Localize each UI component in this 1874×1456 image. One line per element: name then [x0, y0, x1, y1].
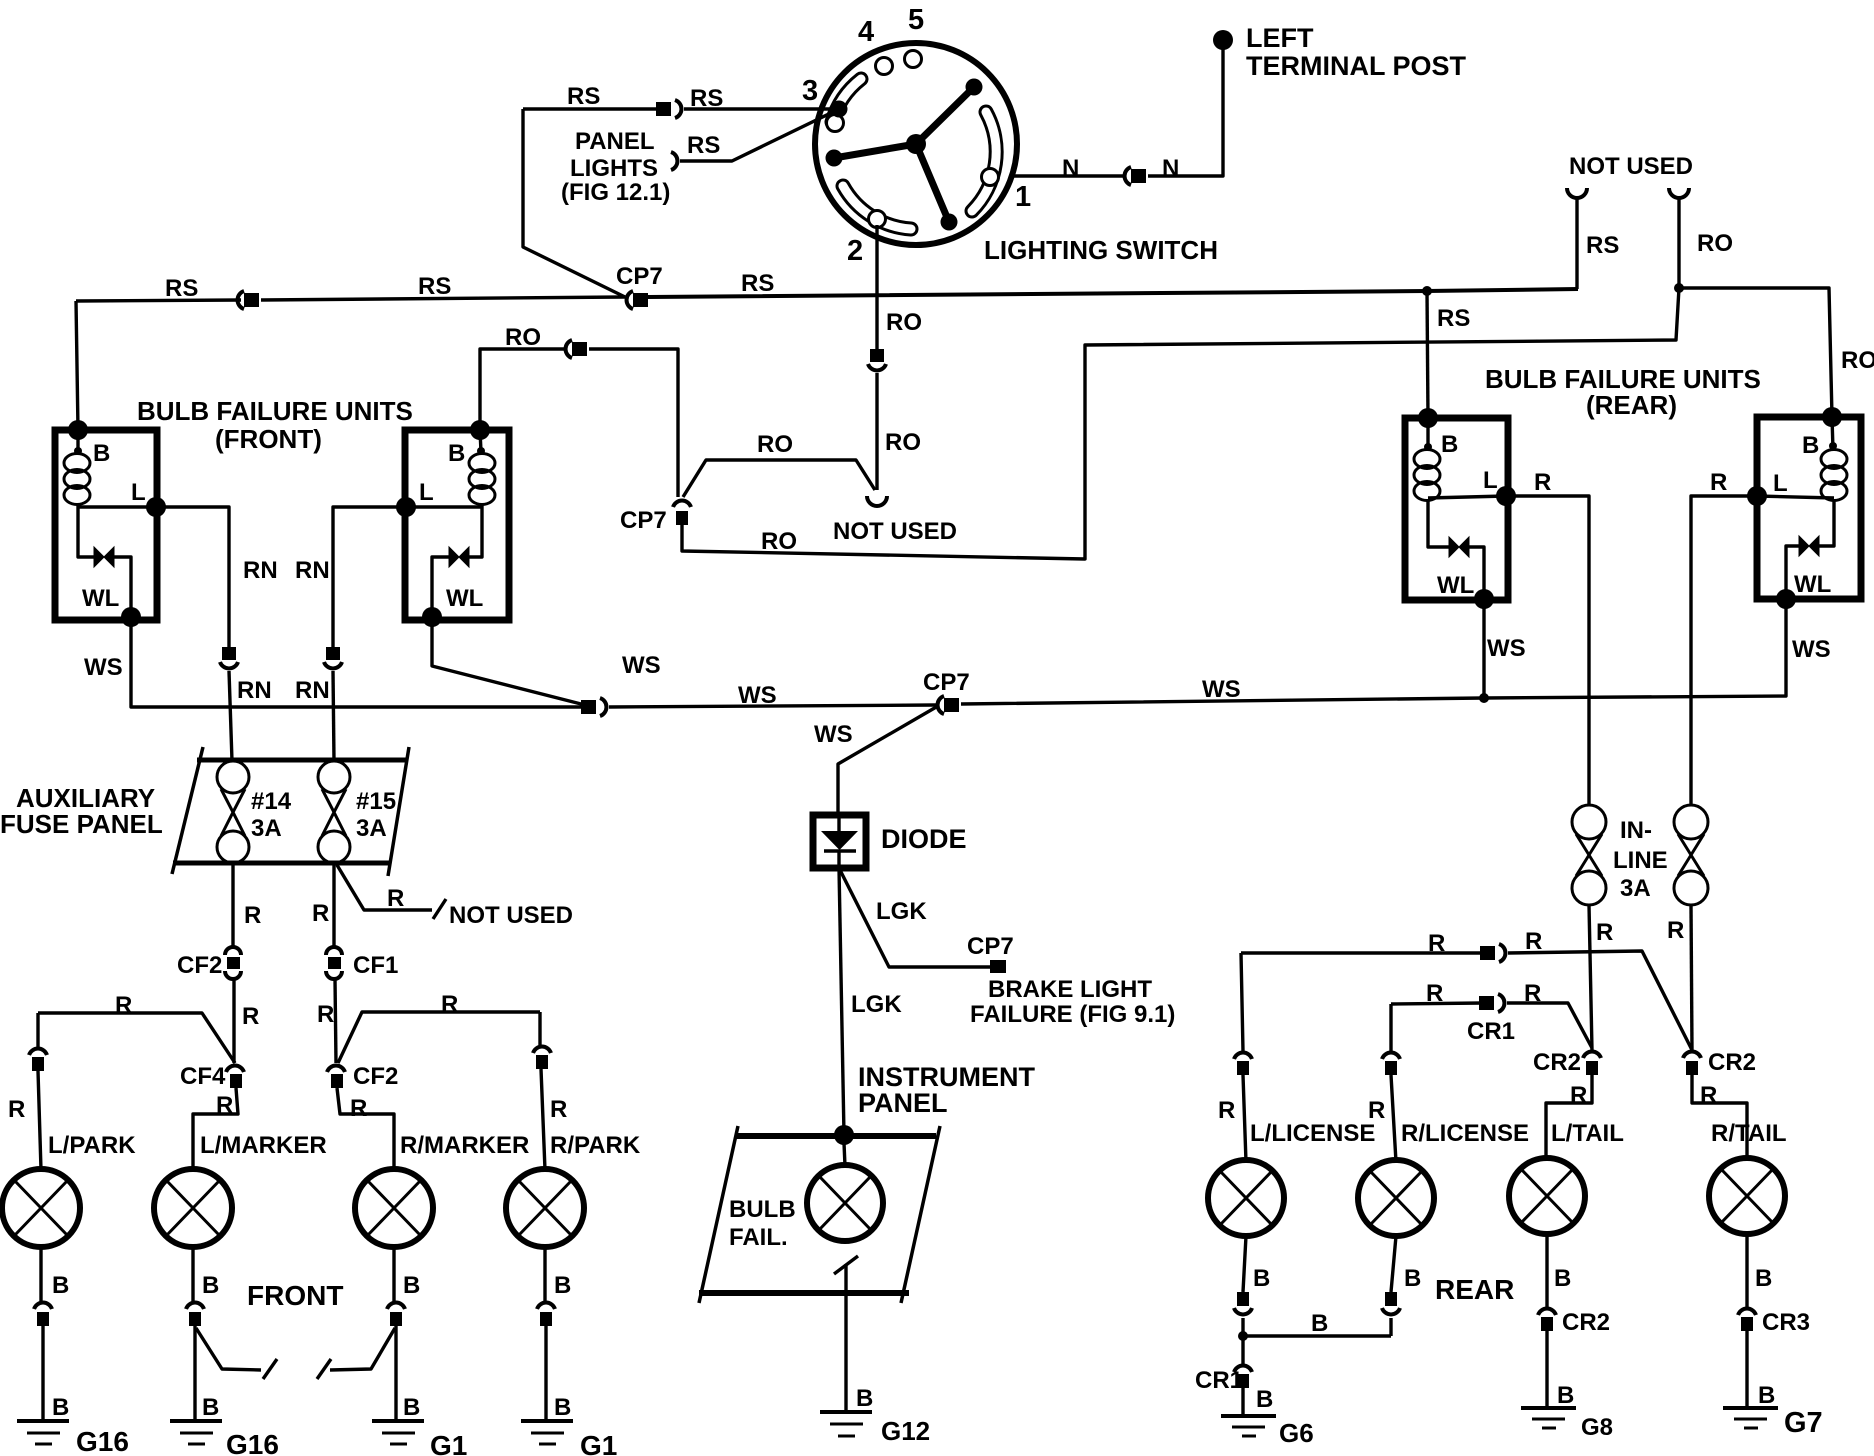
svg-text:1: 1 — [1015, 181, 1031, 213]
connector RO not-used cup — [1669, 188, 1689, 198]
svg-text:WL: WL — [1437, 572, 1474, 599]
ground G6 — [1221, 1416, 1276, 1436]
ground G1 second — [521, 1421, 573, 1444]
svg-text:NOT USED: NOT USED — [833, 518, 957, 545]
connector R/MARKER B (dome-square) — [387, 1303, 405, 1326]
node L right — [1496, 486, 1516, 506]
svg-text:R/PARK: R/PARK — [550, 1132, 641, 1159]
contact circle pin 2 slot — [869, 211, 886, 228]
lighting switch U1 — [802, 4, 1031, 267]
svg-text:B: B — [1554, 1265, 1571, 1292]
wire panel lights stub to pin 3 — [680, 109, 839, 161]
svg-text:R: R — [1710, 469, 1727, 496]
svg-text:R: R — [550, 1096, 567, 1123]
svg-text:WS: WS — [814, 721, 853, 748]
wire coil to L node — [1428, 496, 1506, 498]
lamp L/MARKER — [154, 1169, 232, 1247]
svg-text:R: R — [115, 992, 132, 1019]
rotor center dot — [906, 134, 926, 154]
wire R rear-left L to in-line fuse — [1506, 496, 1589, 806]
bulb failure unit front-right — [396, 420, 509, 627]
wire coil to L node — [1757, 496, 1834, 498]
svg-text:RS: RS — [1586, 232, 1619, 259]
wire R/LICENSE ground lead — [1391, 1236, 1396, 1292]
svg-text:FAILURE (FIG 9.1): FAILURE (FIG 9.1) — [970, 1001, 1175, 1028]
wire WS bus rear — [961, 599, 1786, 704]
svg-text:CF1: CF1 — [353, 952, 398, 979]
svg-text:RS: RS — [418, 273, 451, 300]
connector L/LICENSE (dome-square) — [1234, 1053, 1252, 1075]
svg-text:RN: RN — [295, 677, 330, 704]
svg-text:RO: RO — [1841, 347, 1874, 374]
wire B link between license lamps — [1243, 1318, 1391, 1336]
connector L/LICENSE B (square-cup) — [1234, 1292, 1252, 1314]
connector CF4 (dome-square) — [226, 1066, 244, 1088]
node instrument panel — [834, 1125, 854, 1145]
wire fuse15 not-used stub — [337, 865, 432, 910]
svg-text:B: B — [1311, 1310, 1328, 1337]
svg-text:LINE: LINE — [1613, 847, 1668, 874]
connector CF2 lower (dome-square) — [327, 1066, 345, 1088]
ground G1 left — [372, 1421, 424, 1444]
left terminal post dot — [1213, 30, 1233, 50]
coil top dot — [477, 447, 485, 455]
svg-text:WS: WS — [1202, 676, 1241, 703]
valve symbol — [1449, 537, 1469, 557]
connector L/MARKER B (dome-square) — [186, 1303, 204, 1326]
connector CR2 tail (dome-square) — [1538, 1309, 1556, 1331]
wire coil to valve — [469, 504, 482, 557]
svg-text:#14: #14 — [251, 788, 292, 815]
connector RS not-used cup — [1567, 188, 1587, 198]
connector R inline 1 (square-arc) — [1480, 944, 1505, 962]
fuse #15 — [318, 761, 350, 863]
wire L/PARK feed — [38, 1013, 41, 1170]
svg-text:DIODE: DIODE — [881, 824, 967, 854]
junction dot RS bus — [1422, 286, 1432, 296]
svg-text:G16: G16 — [76, 1426, 129, 1456]
lamp L/LICENSE — [1208, 1160, 1284, 1236]
svg-text:N: N — [1062, 155, 1079, 182]
connector panel lights stub arc — [671, 152, 677, 170]
svg-text:L/LICENSE: L/LICENSE — [1250, 1120, 1375, 1147]
wire L/LICENSE ground lead — [1243, 1236, 1246, 1416]
svg-text:CF2: CF2 — [177, 952, 222, 979]
svg-text:B: B — [554, 1394, 571, 1421]
svg-text:B: B — [403, 1394, 420, 1421]
node L right — [146, 497, 166, 517]
svg-text:L: L — [419, 479, 434, 506]
switch body circle — [815, 43, 1017, 245]
wire panel lights vertical down to CP7 diagonal — [523, 109, 625, 297]
svg-text:BULB FAILURE UNITS: BULB FAILURE UNITS — [137, 396, 413, 426]
node L left — [396, 497, 416, 517]
svg-text:L/MARKER: L/MARKER — [200, 1132, 327, 1159]
svg-text:4: 4 — [858, 16, 874, 48]
rotor arm dot bottom — [941, 214, 958, 231]
connector CP7 (arc-square) — [627, 291, 648, 309]
svg-text:3A: 3A — [251, 815, 282, 842]
bulb failure unit rear-left — [1405, 408, 1516, 609]
contact circle pin 1 slot — [982, 169, 999, 186]
coil winding — [64, 454, 90, 473]
connector CF2 (dome-square-cup) — [225, 947, 241, 979]
junction dot B — [1238, 1331, 1248, 1341]
svg-text:B: B — [1256, 1386, 1273, 1413]
svg-text:CR2: CR2 — [1708, 1049, 1756, 1076]
wire L/MARKER ground lead — [193, 1247, 195, 1419]
connector RO inline (arc-square) — [566, 340, 587, 358]
svg-text:RO: RO — [757, 431, 793, 458]
wire RO connector down to not-used — [875, 373, 878, 490]
wire R/PARK feed — [540, 1012, 545, 1170]
svg-text:B: B — [1755, 1265, 1772, 1292]
wire L front-2 to RN drop — [333, 507, 406, 647]
svg-text:3A: 3A — [1620, 875, 1651, 902]
connector RS bus (arc-square) — [238, 291, 259, 309]
svg-text:FRONT: FRONT — [247, 1280, 343, 1311]
connector R/PARK B (dome-square) — [537, 1303, 555, 1326]
svg-text:REAR: REAR — [1435, 1274, 1514, 1305]
node WL bottom — [422, 607, 442, 627]
svg-text:L: L — [1483, 467, 1498, 494]
svg-text:RS: RS — [687, 132, 720, 159]
svg-text:RO: RO — [505, 324, 541, 351]
variable tick — [834, 1256, 858, 1274]
svg-text:R: R — [1534, 469, 1551, 496]
ground G16 left — [17, 1421, 69, 1444]
wire coil to valve — [1819, 500, 1834, 546]
svg-text:R: R — [1428, 930, 1445, 957]
svg-text:FAIL.: FAIL. — [729, 1224, 788, 1251]
rotor arm dot upper right — [966, 79, 983, 96]
wire B node to coil — [1832, 417, 1833, 450]
connector L/PARK feed (dome-square) — [29, 1049, 47, 1071]
wire R/TAIL ground lead — [1745, 1234, 1748, 1408]
svg-text:R: R — [312, 900, 329, 927]
svg-text:R/TAIL: R/TAIL — [1711, 1120, 1787, 1147]
wire RS bus to CP7 — [261, 297, 625, 300]
wire CF4 to L/MARKER — [193, 1088, 238, 1170]
svg-text:WL: WL — [82, 585, 119, 612]
connector RO inline vertical (square-cup) — [868, 349, 886, 370]
node B top — [1418, 408, 1438, 428]
wire N switch pin1 to connector — [1014, 174, 1123, 177]
svg-text:WL: WL — [1794, 571, 1831, 598]
wire RS drop to rear-left unit — [1427, 291, 1428, 418]
wire valve to WL node — [114, 557, 131, 617]
wire R/TAIL feed — [1692, 1075, 1747, 1160]
wire node to coil — [480, 430, 481, 452]
connector R/LICENSE B (square-cup) — [1382, 1292, 1400, 1314]
svg-text:LGK: LGK — [876, 898, 927, 925]
node L left — [1747, 486, 1767, 506]
wire B node to coil — [1426, 418, 1429, 450]
wire WS from rear-left WL — [1482, 599, 1485, 698]
svg-text:RN: RN — [243, 557, 278, 584]
svg-text:RO: RO — [761, 528, 797, 555]
connector CR2 left (dome-square) — [1583, 1052, 1601, 1075]
svg-text:R: R — [317, 1001, 334, 1028]
svg-text:B: B — [52, 1394, 69, 1421]
coil top dot — [1829, 442, 1837, 450]
svg-text:CP7: CP7 — [620, 507, 667, 534]
wire RS drop to front unit 1 — [76, 301, 78, 430]
wire CF2 to R/MARKER — [337, 1088, 394, 1170]
in-line fuse left — [1572, 805, 1606, 905]
break slash not used — [433, 899, 446, 919]
wire switch pin 2 down — [875, 225, 878, 349]
svg-text:B: B — [554, 1272, 571, 1299]
svg-text:(REAR): (REAR) — [1586, 390, 1677, 420]
svg-text:G12: G12 — [881, 1416, 930, 1446]
svg-text:R: R — [350, 1095, 367, 1122]
svg-text:LGK: LGK — [851, 991, 902, 1018]
svg-text:CF4: CF4 — [180, 1063, 226, 1090]
wire RO fork horizontal — [683, 460, 875, 497]
svg-text:WS: WS — [738, 682, 777, 709]
svg-text:3: 3 — [802, 75, 818, 107]
svg-text:B: B — [1557, 1382, 1574, 1409]
svg-text:B: B — [1404, 1265, 1421, 1292]
connector R/LICENSE (dome-square) — [1382, 1053, 1400, 1075]
svg-text:RS: RS — [165, 275, 198, 302]
svg-text:G1: G1 — [580, 1430, 617, 1456]
wire coil to valve — [78, 504, 94, 557]
wire R license branch line 2 — [1391, 1003, 1483, 1004]
svg-text:R: R — [1426, 980, 1443, 1007]
wire R/PARK ground lead — [545, 1247, 546, 1419]
svg-text:B: B — [1802, 432, 1819, 459]
junction dot WS rear — [1479, 693, 1489, 703]
wire R line 1 to right CR2 — [1508, 951, 1692, 1050]
lamp R/MARKER — [355, 1169, 433, 1247]
wire RS from corner to connector — [523, 107, 658, 110]
node B top — [1822, 407, 1842, 427]
ground G7 — [1723, 1408, 1778, 1428]
svg-text:L: L — [131, 479, 146, 506]
switch slot bottom — [843, 186, 911, 229]
svg-text:G1: G1 — [430, 1430, 467, 1456]
connector WS inline (square-arc) — [581, 698, 606, 716]
switch slot upper-left — [832, 79, 861, 122]
break slash — [263, 1359, 277, 1379]
svg-text:G7: G7 — [1784, 1407, 1823, 1439]
svg-text:G16: G16 — [226, 1429, 279, 1456]
svg-text:NOT USED: NOT USED — [449, 902, 573, 929]
valve symbol — [1799, 536, 1819, 556]
connector CR1 (dome-square) — [1234, 1366, 1252, 1388]
svg-text:WS: WS — [622, 652, 661, 679]
wire to ground G12 — [844, 1264, 847, 1412]
wire L/PARK ground lead — [41, 1247, 43, 1419]
lamp R/PARK — [506, 1169, 584, 1247]
wire coil to L node — [78, 505, 156, 508]
svg-text:RO: RO — [885, 429, 921, 456]
connector R/PARK feed (dome-square) — [533, 1047, 551, 1069]
connector CR2 right (dome-square) — [1683, 1052, 1701, 1075]
svg-text:(FRONT): (FRONT) — [215, 424, 322, 454]
svg-text:WS: WS — [1487, 635, 1526, 662]
coil top dot — [74, 447, 82, 455]
lamp R/TAIL — [1709, 1158, 1785, 1234]
svg-text:RN: RN — [237, 677, 272, 704]
coil winding — [1821, 450, 1847, 469]
svg-text:B: B — [1253, 1265, 1270, 1292]
svg-text:B: B — [202, 1272, 219, 1299]
diode D1 — [813, 815, 866, 868]
svg-text:RS: RS — [741, 270, 774, 297]
wire RO fork to rear-right unit — [1679, 288, 1832, 417]
wire node to lamp — [844, 1143, 845, 1166]
svg-text:B: B — [93, 440, 110, 467]
wire N to terminal post — [1148, 47, 1223, 176]
wire R/MARKER ground lead — [394, 1247, 396, 1419]
svg-text:WL: WL — [446, 585, 483, 612]
connector RS inline (square-arc) — [656, 100, 681, 118]
svg-text:NOT USED: NOT USED — [1569, 153, 1693, 180]
wire R license branch line 1 — [1241, 951, 1484, 954]
switch rotor arms — [834, 87, 974, 222]
svg-text:L/PARK: L/PARK — [48, 1132, 136, 1159]
svg-text:RN: RN — [295, 557, 330, 584]
svg-text:R: R — [1700, 1082, 1717, 1109]
svg-text:#15: #15 — [356, 788, 396, 815]
svg-text:PANEL: PANEL — [575, 128, 655, 155]
break slash — [317, 1359, 331, 1379]
svg-text:G6: G6 — [1279, 1418, 1314, 1448]
svg-text:WS: WS — [1792, 636, 1831, 663]
wire RO bottom run to rear — [682, 288, 1679, 559]
svg-text:R: R — [1218, 1097, 1235, 1124]
svg-text:(FIG 12.1): (FIG 12.1) — [561, 179, 670, 206]
wire RO fork vertical — [1677, 198, 1680, 288]
wire R branch to R/PARK — [338, 1012, 540, 1063]
wire fuse right to CR2 — [1691, 905, 1692, 1050]
ground G12 — [820, 1412, 872, 1436]
node WL bottom — [1474, 589, 1494, 609]
wire LGK diode to instrument panel — [839, 868, 844, 1135]
svg-text:R: R — [1596, 919, 1613, 946]
svg-text:R/LICENSE: R/LICENSE — [1401, 1120, 1529, 1147]
svg-text:CP7: CP7 — [616, 263, 663, 290]
svg-text:R/MARKER: R/MARKER — [400, 1132, 529, 1159]
wire RS bus CP7 to rear junction — [648, 289, 1578, 297]
wire coil to valve — [1428, 500, 1449, 547]
wire valve to WL node — [432, 557, 449, 617]
wire L/LICENSE feed — [1241, 953, 1246, 1162]
svg-text:CP7: CP7 — [923, 669, 970, 696]
lamp BULB FAIL — [807, 1165, 883, 1241]
svg-text:B: B — [1441, 431, 1458, 458]
wire RN to fuse 14 — [229, 671, 232, 761]
svg-text:CR3: CR3 — [1762, 1309, 1810, 1336]
svg-text:L/TAIL: L/TAIL — [1551, 1120, 1624, 1147]
svg-text:R: R — [441, 991, 458, 1018]
connector RN inline vertical right (square-cup) — [324, 647, 342, 668]
connector CF1 (dome-square-cup) — [326, 947, 342, 979]
terminal 3 dot — [831, 101, 848, 118]
svg-text:RO: RO — [1697, 230, 1733, 257]
auxiliary fuse panel parallelogram — [172, 747, 409, 876]
instrument panel parallelogram — [699, 1126, 940, 1303]
wire valve to WL node — [1786, 546, 1799, 599]
wire R/LICENSE feed — [1391, 1004, 1396, 1162]
svg-text:R: R — [242, 1003, 259, 1030]
connector N inline (arc-square) — [1125, 167, 1146, 185]
wire L/TAIL ground lead — [1545, 1234, 1548, 1408]
in-line fuse right — [1674, 805, 1708, 905]
coil winding — [1414, 450, 1440, 469]
node B top — [68, 420, 88, 440]
wire R branch to L/PARK — [38, 1013, 235, 1063]
svg-text:R: R — [1667, 917, 1684, 944]
svg-text:CR2: CR2 — [1562, 1309, 1610, 1336]
lamp R/LICENSE — [1358, 1160, 1434, 1236]
wire WS diagonal from front unit 2 — [432, 617, 585, 705]
svg-text:RS: RS — [567, 83, 600, 110]
svg-text:LIGHTS: LIGHTS — [570, 155, 658, 182]
svg-text:CR2: CR2 — [1533, 1049, 1581, 1076]
wire RO from front unit 2 — [480, 349, 564, 430]
svg-text:CR1: CR1 — [1467, 1018, 1515, 1045]
svg-text:WS: WS — [84, 654, 123, 681]
connector not-used cup mid — [867, 496, 887, 506]
wire node to coil — [76, 430, 79, 452]
svg-text:R: R — [244, 902, 261, 929]
lamp L/PARK — [2, 1169, 80, 1247]
contact circle pin 3 slot — [827, 115, 844, 132]
wire coil to L node — [406, 505, 482, 508]
connector R inline 2 (square-arc) — [1479, 994, 1504, 1012]
wire R line 2 to left CR2 — [1507, 1003, 1592, 1048]
svg-text:B: B — [52, 1272, 69, 1299]
svg-text:R: R — [216, 1092, 233, 1119]
svg-text:TERMINAL POST: TERMINAL POST — [1246, 51, 1467, 81]
connector CP7 brake light square — [990, 960, 1006, 973]
node WL bottom — [121, 607, 141, 627]
bulb failure unit front-left — [55, 420, 166, 627]
contact circle near pin 4 — [876, 58, 893, 75]
wire WS CP7 diagonal to diode — [838, 706, 938, 815]
wire L/TAIL feed — [1546, 1075, 1592, 1160]
svg-text:FUSE PANEL: FUSE PANEL — [0, 809, 163, 839]
svg-text:R: R — [8, 1096, 25, 1123]
wire valve to WL node — [1469, 547, 1484, 599]
wire RS fork vertical — [1575, 198, 1578, 289]
svg-text:LIGHTING SWITCH: LIGHTING SWITCH — [984, 235, 1218, 265]
switch slot right — [972, 112, 996, 211]
ground G16 second — [170, 1421, 222, 1444]
wire fuse left to CR2 — [1589, 905, 1592, 1050]
stub not used from R/MARKER — [330, 1328, 395, 1370]
valve symbol — [449, 547, 469, 567]
valve symbol — [94, 547, 114, 567]
node WL bottom — [1776, 589, 1796, 609]
wire RN to fuse 15 — [333, 671, 334, 761]
connector RN inline vertical left (square-cup) — [220, 647, 238, 668]
fuse #14 — [217, 761, 249, 863]
bulb failure unit rear-right — [1747, 407, 1861, 609]
svg-text:RO: RO — [886, 309, 922, 336]
wire RS bus left — [76, 300, 241, 301]
svg-text:LEFT: LEFT — [1246, 23, 1314, 53]
svg-text:5: 5 — [908, 4, 924, 36]
coil winding — [469, 454, 495, 473]
wire RS connector to switch pin 3 — [684, 107, 839, 110]
svg-text:G8: G8 — [1581, 1414, 1613, 1441]
connector CP7 lower (dome-square) — [673, 501, 691, 525]
